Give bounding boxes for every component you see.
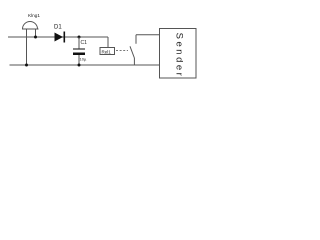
svg-text:Rel1: Rel1: [102, 49, 112, 54]
wire C1 top lead: [78, 37, 80, 49]
mechanical link dashed: [116, 50, 128, 52]
junction dot bell left leg / bottom rail: [25, 64, 28, 67]
wire top rail: [8, 36, 108, 38]
wire switch top lead: [135, 35, 137, 44]
svg-text:Klng1: Klng1: [28, 13, 40, 18]
wire switch to sender: [136, 34, 160, 36]
wire C1 bottom lead: [78, 55, 80, 65]
diode D1 anode triangle: [55, 33, 64, 42]
diode D1 cathode bar: [63, 32, 65, 43]
svg-text:D1: D1: [54, 25, 62, 31]
capacitor C1 bottom plate: [73, 53, 85, 56]
switch S1 blade: [130, 46, 134, 58]
junction dot C1 / bottom rail: [78, 64, 81, 67]
svg-text:C1: C1: [81, 40, 88, 46]
bell Klng1 base: [22, 28, 39, 30]
capacitor C1 top plate: [73, 48, 85, 50]
svg-text:Sender: Sender: [174, 33, 185, 79]
wire bell left leg: [26, 29, 28, 65]
wire switch bottom lead: [133, 58, 135, 65]
junction dot C1 / top rail: [78, 36, 81, 39]
relay Rel1 box: [100, 48, 115, 55]
bell Klng1 dome: [23, 22, 38, 30]
svg-text:10µ: 10µ: [80, 57, 87, 62]
module Sender box: [160, 29, 197, 79]
junction dot bell right leg / top rail: [34, 36, 37, 39]
wire bell right leg: [35, 29, 37, 37]
wire top rail corner down to relay: [107, 37, 109, 48]
wire bottom rail: [10, 64, 160, 66]
